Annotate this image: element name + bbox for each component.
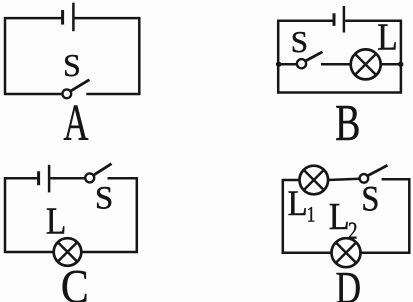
wire B middle left [278, 63, 297, 66]
svg-text:L: L [46, 200, 66, 242]
svg-text:C: C [61, 260, 89, 302]
svg-text:S: S [291, 24, 308, 59]
lamp L2 (D) bulb [332, 238, 361, 267]
wire C top center [50, 177, 85, 180]
lamp L (C) bulb [54, 238, 82, 266]
switch S (D) lever [368, 165, 388, 175]
svg-text:S: S [95, 180, 113, 216]
switch S (D) pivot circle [360, 174, 369, 183]
wire C left edge [5, 178, 54, 252]
svg-text:B: B [335, 93, 360, 151]
switch S (B) lever [305, 52, 322, 61]
svg-text:D: D [336, 261, 362, 302]
wire D top right [361, 179, 410, 252]
battery BT-B short plate [333, 13, 336, 26]
lamp L1 (D) bulb [300, 166, 329, 195]
svg-text:A: A [63, 94, 88, 152]
battery BT-A long plate [72, 3, 75, 32]
svg-text:S: S [361, 179, 379, 219]
wire A left edge [5, 18, 62, 94]
node dot right (B) [398, 61, 403, 66]
wire B left edge [278, 21, 401, 93]
svg-text:L: L [329, 195, 350, 237]
battery BT-B long plate [343, 6, 346, 33]
svg-text:L: L [288, 184, 308, 224]
wire D top center [328, 179, 359, 180]
svg-text:S: S [63, 47, 81, 83]
switch S (A) lever [71, 80, 90, 91]
switch S (C) lever [94, 164, 112, 176]
svg-text:2: 2 [348, 217, 357, 244]
battery BT-C long plate [48, 165, 51, 193]
wire C top right [81, 178, 137, 252]
svg-text:1: 1 [307, 203, 316, 227]
switch S (A) pivot circle [62, 89, 71, 98]
node dot left (B) [276, 61, 281, 66]
switch S (B) pivot circle [297, 59, 306, 68]
wire B middle center [321, 63, 351, 66]
lamp L (B) bulb [351, 49, 381, 79]
wire A right edge [74, 18, 139, 94]
wire D left edge [283, 180, 332, 253]
battery BT-C short plate [37, 171, 40, 185]
wire B middle right [381, 63, 401, 66]
battery BT-A short plate [61, 10, 64, 25]
svg-text:L: L [377, 15, 397, 57]
switch S (C) pivot circle [85, 173, 94, 182]
